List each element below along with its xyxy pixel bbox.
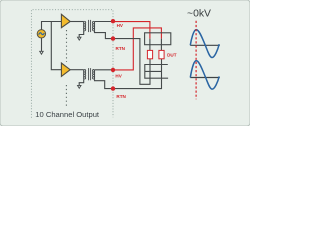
dark wire: channel-2 RTN to R2 bottom bbox=[113, 59, 162, 89]
svg-text:RTN: RTN bbox=[116, 46, 126, 51]
AC source V1 bbox=[37, 30, 45, 38]
red dashed time cursor bbox=[195, 21, 197, 100]
svg-text:10 Channel Output: 10 Channel Output bbox=[35, 110, 100, 119]
resistor R1 bbox=[147, 50, 152, 58]
wire: source V1 to ground bbox=[41, 38, 43, 52]
wire: T2 secondary top to channel-2 HV terminal bbox=[95, 69, 112, 71]
svg-text:HV: HV bbox=[115, 74, 122, 79]
wire: amp U2 output to transformer T2 primary bbox=[70, 69, 84, 71]
transformer T2 bbox=[84, 68, 95, 80]
wire: source V1 to amp U1 input (channel 1) bbox=[42, 22, 62, 30]
red wire: channel-1 HV to DUT bbox=[113, 22, 150, 39]
wire: branch from channel-1 input bus down to amp U2 input bbox=[51, 22, 61, 70]
DUT enclosure box bbox=[145, 33, 171, 45]
continuation dots between channel 1 and channel 2 bbox=[66, 30, 68, 62]
wire: T2 primary bottom to ground bbox=[79, 79, 84, 85]
dark wire: channel-1 RTN to R1 bottom bbox=[113, 39, 150, 85]
dark mid rail bbox=[145, 70, 162, 72]
svg-text:DUT: DUT bbox=[167, 52, 177, 57]
terminal dot HV channel 2 bbox=[111, 68, 115, 72]
waveform axis 2 bbox=[190, 77, 220, 79]
op-amp U1 (channel 1 amplifier) bbox=[61, 14, 70, 27]
dotted enclosure box (10 channel output) bbox=[31, 10, 113, 118]
sine trace 1 bbox=[190, 30, 219, 58]
svg-text:HV: HV bbox=[117, 23, 124, 28]
ground symbol under T2 bbox=[78, 85, 82, 88]
terminal dot RTN channel 1 bbox=[111, 36, 115, 40]
svg-text:~0kV: ~0kV bbox=[187, 9, 211, 20]
wire: T1 secondary bottom to RTN terminal bbox=[95, 31, 112, 39]
ground symbol under V1 bbox=[40, 51, 44, 54]
background panel bbox=[0, 0, 250, 126]
op-amp U2 (channel 2 amplifier) bbox=[61, 63, 70, 76]
transformer T1 bbox=[84, 20, 95, 32]
wire: T2 secondary bottom to channel-2 RTN terminal bbox=[95, 79, 112, 89]
svg-text:RTN: RTN bbox=[116, 94, 126, 99]
wire: T1 secondary top to HV terminal bbox=[95, 21, 112, 23]
continuation dots below channel 2 bbox=[65, 85, 67, 107]
resistor R2 bbox=[159, 50, 164, 58]
ground symbol under T1 bbox=[78, 37, 82, 40]
terminal dot HV channel 1 bbox=[111, 19, 115, 23]
wire: amp U1 output to transformer T1 primary bbox=[70, 21, 84, 23]
wire: T1 primary bottom to ground bbox=[79, 31, 84, 37]
dark wire: riser stubs into resistor tops bbox=[150, 39, 162, 51]
waveform axis 1 bbox=[190, 44, 220, 46]
dark rail below resistors with left drop bbox=[145, 65, 168, 79]
terminal dot RTN channel 2 bbox=[111, 86, 115, 90]
red wire: channel-2 HV riser to DUT bbox=[113, 28, 161, 70]
sine trace 2 bbox=[190, 61, 219, 90]
